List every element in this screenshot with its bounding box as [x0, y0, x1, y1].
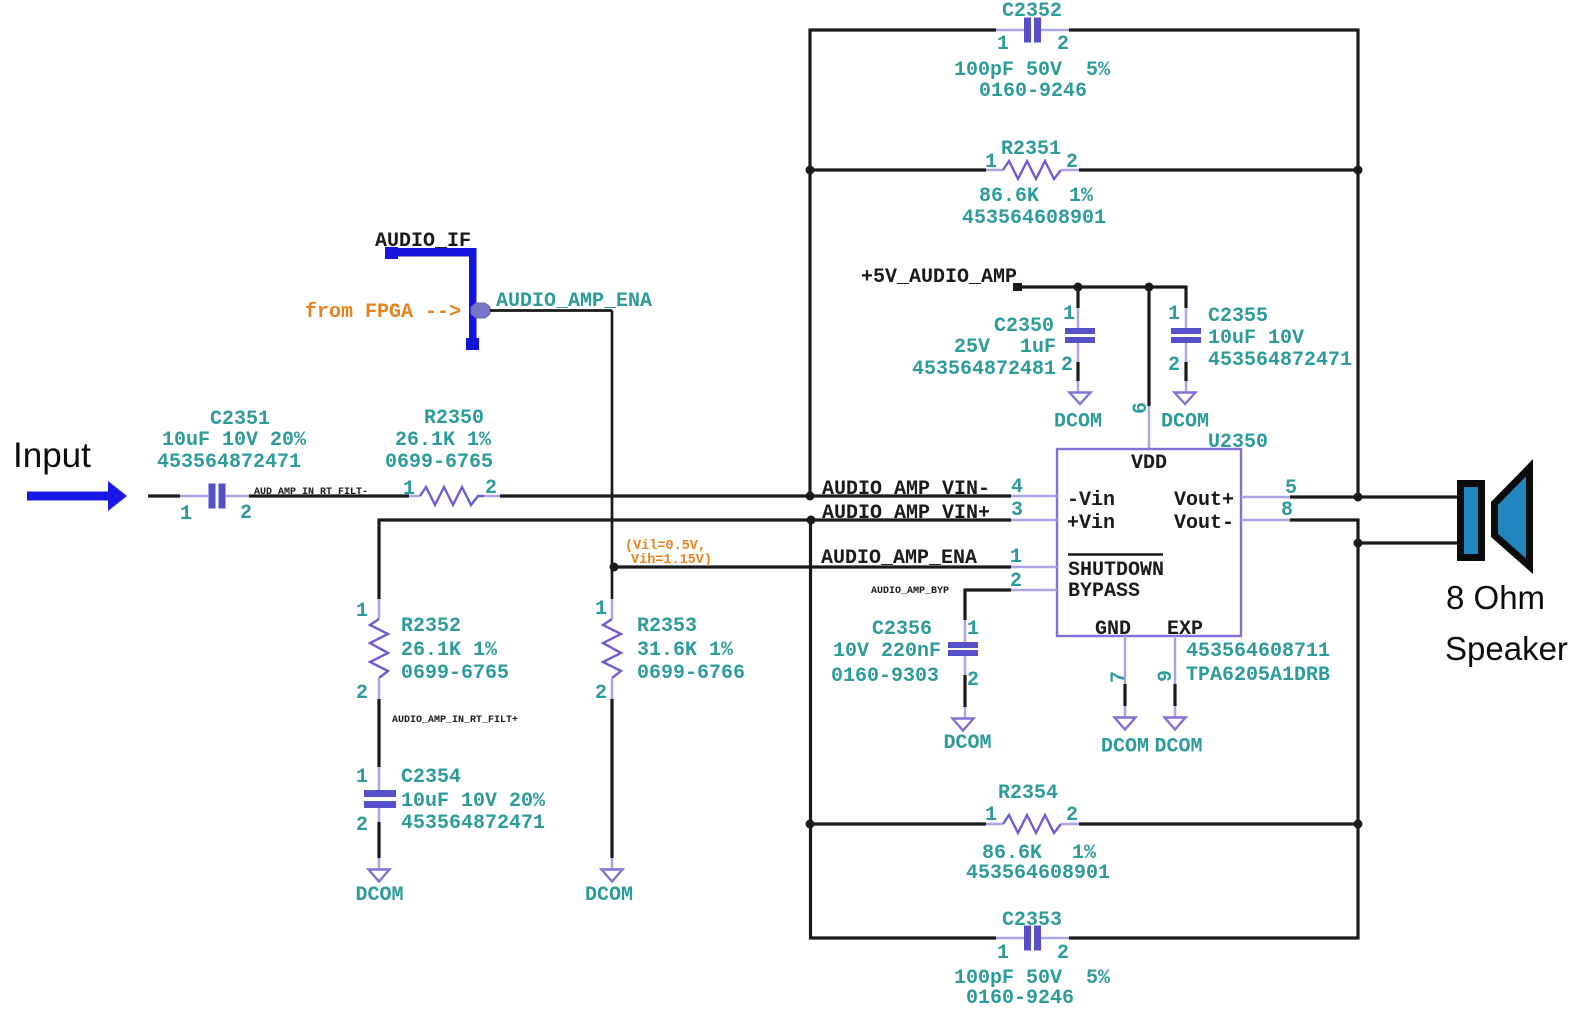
svg-text:Input: Input [13, 436, 91, 475]
wire VIN+ to pin3 [811, 518, 1011, 521]
input arrow [27, 481, 127, 511]
capacitor C2354 [356, 766, 546, 837]
svg-text:0160-9246: 0160-9246 [966, 987, 1074, 1007]
svg-text:2: 2 [1066, 151, 1078, 174]
svg-text:DCOM: DCOM [1161, 411, 1209, 434]
bus AUDIO_IF (blue) [385, 247, 479, 350]
svg-text:2: 2 [240, 502, 252, 525]
svg-text:1: 1 [356, 766, 368, 789]
svg-text:6: 6 [1130, 402, 1153, 414]
svg-text:+Vin: +Vin [1067, 512, 1115, 535]
pin numbers left [1010, 476, 1023, 593]
svg-text:453564608711: 453564608711 [1186, 640, 1330, 663]
label Vil/Vih note [625, 539, 712, 568]
svg-text:C2355: C2355 [1208, 305, 1268, 328]
wire bottom feedback row y=938 [810, 936, 1358, 939]
pin stubs U2350 left [1011, 496, 1057, 590]
svg-text:1: 1 [180, 503, 192, 526]
svg-text:8 Ohm: 8 Ohm [1446, 579, 1545, 616]
svg-text:25V: 25V [954, 336, 990, 359]
svg-text:453564872471: 453564872471 [157, 451, 301, 474]
label 8 Ohm Speaker [1445, 579, 1568, 667]
svg-text:26.1K 1%: 26.1K 1% [395, 429, 492, 452]
svg-text:1: 1 [595, 598, 607, 621]
wire ENA from FPGA node [490, 311, 612, 600]
junction R2354 left [806, 820, 815, 829]
wire Vout+ row y=497 [1290, 495, 1457, 498]
svg-text:0699-6765: 0699-6765 [401, 662, 509, 685]
junction VIN- / feedback [806, 492, 815, 501]
junction R2351 left [806, 166, 815, 175]
svg-text:TPA6205A1DRB: TPA6205A1DRB [1186, 664, 1330, 687]
svg-text:453564608901: 453564608901 [966, 862, 1110, 885]
wire top feedback row y=30 [810, 28, 1358, 31]
wire C2355 to ground [1184, 362, 1187, 381]
svg-text:1: 1 [997, 942, 1009, 965]
capacitor C2356 [831, 618, 979, 692]
wire C2350 to ground [1076, 362, 1079, 381]
wire R2352 to C2354 [377, 699, 380, 767]
ground DCOM (EXP pin) [1154, 718, 1202, 759]
svg-text:2: 2 [1061, 354, 1073, 377]
resistor R2351 [962, 138, 1106, 230]
ground DCOM (C2350) [1054, 381, 1102, 434]
svg-text:AUDIO_AMP_BYP: AUDIO_AMP_BYP [871, 586, 949, 597]
svg-text:Vih=1.15V): Vih=1.15V) [631, 553, 712, 568]
wire +5V rail [1018, 286, 1186, 407]
node AUDIO_AMP_ENA tap (octagon) [471, 303, 490, 318]
svg-text:5%: 5% [1086, 59, 1111, 82]
svg-text:7: 7 [1108, 671, 1131, 683]
svg-text:1: 1 [985, 804, 997, 827]
svg-text:VDD: VDD [1131, 452, 1167, 475]
svg-text:DCOM: DCOM [1154, 736, 1202, 759]
speaker (8 Ohm) [1457, 459, 1533, 574]
svg-text:BYPASS: BYPASS [1068, 580, 1140, 603]
op-amp U2350 (TPA6205A1DRB) [1057, 431, 1268, 641]
svg-text:DCOM: DCOM [943, 732, 991, 755]
svg-text:453564608901: 453564608901 [962, 207, 1106, 230]
svg-text:1: 1 [967, 618, 979, 641]
svg-text:1: 1 [1063, 303, 1075, 326]
svg-text:C2356: C2356 [872, 618, 932, 641]
svg-text:C2352: C2352 [1002, 0, 1062, 23]
svg-text:1: 1 [997, 33, 1009, 56]
svg-text:Vout+: Vout+ [1174, 489, 1234, 512]
svg-text:AUDIO_AMP_VIN-: AUDIO_AMP_VIN- [822, 478, 990, 501]
svg-text:R2351: R2351 [1001, 138, 1061, 161]
svg-text:4: 4 [1011, 476, 1023, 499]
svg-text:2: 2 [356, 814, 368, 837]
svg-text:C2351: C2351 [210, 408, 270, 431]
wire left frame vertical upper (Vout+ feedback to VIN-) [808, 29, 811, 497]
pin 6 stub (VDD) [1130, 402, 1153, 449]
svg-text:DCOM: DCOM [1054, 411, 1102, 434]
wire right frame vertical upper [1356, 29, 1359, 498]
wire VIN+ net corner [379, 519, 811, 600]
svg-text:0160-9246: 0160-9246 [979, 80, 1087, 103]
svg-text:2: 2 [1066, 804, 1078, 827]
svg-text:2: 2 [1057, 33, 1069, 56]
svg-text:from FPGA -->: from FPGA --> [305, 301, 461, 324]
svg-text:100pF 50V: 100pF 50V [954, 59, 1062, 82]
wire R2353 to ground [610, 699, 613, 858]
junction VIN+ / feedback [807, 516, 816, 525]
svg-text:2: 2 [1168, 354, 1180, 377]
svg-text:AUDIO_AMP_IN_RT_FILT+: AUDIO_AMP_IN_RT_FILT+ [392, 715, 518, 726]
pin 7 GND stub [1108, 636, 1131, 717]
junction R2351 right [1354, 166, 1363, 175]
ground DCOM (C2354) [355, 858, 403, 907]
pin 9 EXP stub [1155, 636, 1178, 717]
svg-text:86.6K: 86.6K [979, 185, 1039, 208]
svg-text:+5V_AUDIO_AMP: +5V_AUDIO_AMP [861, 266, 1017, 289]
junction ENA / R2353 [610, 563, 619, 572]
ground DCOM (R2353) [585, 858, 633, 907]
capacitor C2350 [912, 303, 1095, 381]
svg-text:10uF 10V 20%: 10uF 10V 20% [401, 790, 546, 813]
svg-text:R2354: R2354 [998, 782, 1058, 805]
junction Vout- / feedback [1354, 539, 1363, 548]
svg-text:2: 2 [595, 682, 607, 705]
wire R2351 row y=170 [810, 168, 1358, 171]
svg-text:R2352: R2352 [401, 615, 461, 638]
svg-text:C2350: C2350 [994, 315, 1054, 338]
wire right frame vertical lower [1356, 543, 1359, 940]
svg-text:1: 1 [1010, 546, 1022, 569]
pin numbers right [1281, 477, 1297, 522]
wire ENA row y=567 [613, 565, 1011, 568]
junction Vout+ / feedback [1354, 493, 1363, 502]
svg-text:C2354: C2354 [401, 766, 461, 789]
capacitor C2355 [1168, 303, 1352, 377]
svg-text:2: 2 [1057, 942, 1069, 965]
svg-text:10uF 10V 20%: 10uF 10V 20% [162, 429, 307, 452]
resistor R2353 [595, 598, 745, 705]
svg-text:AUD_AMP_IN_RT_FILT-: AUD_AMP_IN_RT_FILT- [254, 487, 368, 498]
svg-text:Vout-: Vout- [1174, 512, 1234, 535]
svg-text:2: 2 [485, 477, 497, 500]
capacitor C2353 [954, 909, 1111, 1010]
svg-text:1: 1 [1168, 303, 1180, 326]
svg-text:AUDIO_AMP_ENA: AUDIO_AMP_ENA [821, 547, 977, 570]
pin stubs U2350 right [1241, 497, 1290, 520]
svg-text:0699-6765: 0699-6765 [385, 451, 493, 474]
wire main input net y=496 [148, 494, 1011, 497]
svg-text:DCOM: DCOM [585, 884, 633, 907]
part number U2350 [1186, 640, 1330, 687]
svg-text:-Vin: -Vin [1067, 489, 1115, 512]
svg-text:10V 220nF: 10V 220nF [833, 640, 941, 663]
wire R2354 row y=824 [810, 822, 1358, 825]
svg-text:453564872471: 453564872471 [401, 812, 545, 835]
svg-text:U2350: U2350 [1208, 431, 1268, 454]
svg-text:Speaker: Speaker [1445, 630, 1568, 667]
ground DCOM (C2356) [943, 707, 991, 755]
svg-text:DCOM: DCOM [1101, 736, 1149, 759]
svg-text:1: 1 [403, 478, 415, 501]
wire C2354 to ground [377, 822, 380, 858]
svg-text:2: 2 [967, 669, 979, 692]
ground DCOM (GND pin) [1101, 718, 1149, 759]
svg-text:5%: 5% [1086, 967, 1111, 990]
svg-text:26.1K 1%: 26.1K 1% [401, 639, 498, 662]
svg-text:1: 1 [985, 151, 997, 174]
svg-text:R2350: R2350 [424, 407, 484, 430]
resistor R2350 [385, 407, 500, 505]
wire left frame vertical lower (VIN+ to bottom feedback) [809, 520, 812, 940]
svg-text:AUDIO_AMP_VIN+: AUDIO_AMP_VIN+ [822, 502, 990, 525]
svg-text:DCOM: DCOM [355, 884, 403, 907]
svg-text:3: 3 [1011, 499, 1023, 522]
ground DCOM (C2355) [1161, 381, 1209, 434]
svg-text:453564872481: 453564872481 [912, 358, 1056, 381]
svg-text:2: 2 [1010, 570, 1022, 593]
svg-text:10uF 10V: 10uF 10V [1208, 327, 1304, 350]
wire Vout- jog [1290, 519, 1457, 544]
svg-text:0160-9303: 0160-9303 [831, 665, 939, 688]
svg-text:9: 9 [1155, 670, 1178, 682]
svg-text:1uF: 1uF [1020, 336, 1056, 359]
resistor R2352 [356, 599, 509, 705]
svg-text:2: 2 [356, 682, 368, 705]
svg-text:(Vil=0.5V,: (Vil=0.5V, [625, 539, 706, 554]
svg-text:0699-6766: 0699-6766 [637, 662, 745, 685]
node +5V terminal [1013, 283, 1022, 291]
junction R2354 right [1354, 820, 1363, 829]
wire BYPASS to C2356 [965, 589, 1011, 621]
capacitor C2352 [954, 0, 1111, 103]
svg-text:453564872471: 453564872471 [1208, 349, 1352, 372]
svg-text:SHUTDOWN: SHUTDOWN [1068, 559, 1164, 582]
svg-text:1%: 1% [1069, 185, 1094, 208]
svg-text:C2353: C2353 [1002, 909, 1062, 932]
junction +5V / VDD [1145, 283, 1154, 292]
svg-text:31.6K 1%: 31.6K 1% [637, 639, 734, 662]
svg-text:R2353: R2353 [637, 615, 697, 638]
junction +5V / C2350 [1074, 283, 1083, 292]
svg-text:1: 1 [356, 600, 368, 623]
wire C2356 to ground [963, 675, 966, 707]
capacitor C2351 [157, 408, 307, 526]
resistor R2354 [966, 782, 1110, 885]
svg-text:EXP: EXP [1167, 618, 1203, 641]
